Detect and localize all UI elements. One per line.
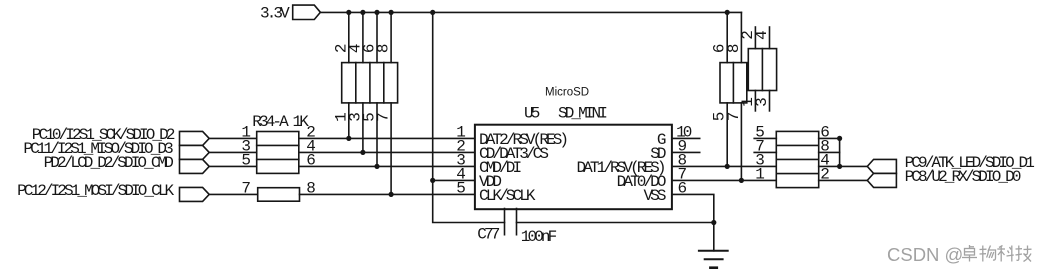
wire U5 pin7 to RP2 pin1 (672, 179, 776, 181)
wire RN2 pin5 lead (726, 103, 728, 166)
wire U5 pin6 VSS to ground (672, 194, 714, 250)
power flag 3.3V (293, 5, 321, 19)
wire RP2 pin7 stub (754, 151, 776, 153)
port flag PD2/LCD_D2/SDIO_CMD (180, 159, 210, 173)
wire tie link pins 6,8,4 (839, 138, 841, 166)
wire RP2 pin6 stub (819, 137, 840, 139)
svg-text:100nF: 100nF (521, 228, 557, 246)
wire RP2 pin2 to PC8 flag (819, 179, 868, 181)
svg-text:VSS: VSS (643, 187, 665, 205)
wire RN1 pin5 lead (376, 103, 378, 166)
wire row4 flag to R34-B (209, 193, 258, 195)
wire RP2 pin5 stub (754, 137, 776, 139)
wire RN2 pin6 lead (726, 12, 728, 62)
svg-text:3: 3 (753, 97, 771, 107)
wire RP2 pin4 to PC9 flag (819, 165, 868, 167)
watermark CSDN @卓物科技 (887, 244, 1032, 265)
svg-text:7: 7 (725, 112, 743, 122)
resistor network RN2 pull-ups (pins 6,8 top / 5,7 bottom) (720, 63, 747, 103)
svg-text:SD_MINI: SD_MINI (558, 105, 607, 123)
glyph 科 (997, 246, 1014, 262)
wire row1 flag to R34-A (209, 137, 257, 139)
ground (699, 251, 728, 268)
wire row2 R34-A to U5 pin2 (299, 151, 475, 153)
wire U5 pin10 stub (672, 137, 700, 139)
wire RN3 pin1 lead (754, 91, 756, 111)
port flag PC10/I2S1_SCK/SDIO_D2 (180, 131, 210, 145)
wire RN3 pin2 lead (754, 27, 756, 49)
wire row1 R34-A to U5 pin1 (299, 137, 475, 139)
svg-text:5: 5 (241, 151, 251, 169)
wire row3 flag to R34-A (209, 165, 257, 167)
wire RN3 pin3 lead (769, 91, 771, 111)
wire RN1 pin4 lead (362, 12, 364, 62)
svg-text:CLK/SCLK: CLK/SCLK (479, 187, 536, 205)
port flag PC8/U2_RX/SDIO_D0 (867, 173, 896, 187)
wire RN1 pin8 lead (390, 12, 392, 62)
svg-text:7: 7 (241, 179, 251, 197)
wire RN3 pin4 lead (769, 27, 771, 49)
junction dots on signal rows (346, 136, 842, 225)
svg-text:PC12/I2S1_MOSI/SDIO_CLK: PC12/I2S1_MOSI/SDIO_CLK (17, 182, 174, 200)
op-amp U5 SD_MINI body (475, 125, 672, 210)
svg-text:8: 8 (375, 43, 393, 53)
svg-text:C77: C77 (477, 226, 499, 244)
glyph 技 (1016, 246, 1032, 262)
svg-text:5: 5 (456, 179, 466, 197)
wire RN2 pin8 lead (740, 12, 742, 62)
svg-text:CSDN @: CSDN @ (887, 244, 963, 265)
resistor network RN1 pull-ups (pins 2,4,6,8 top / 1,3,5,7 bottom) (342, 63, 398, 103)
wire row2 flag to R34-A (209, 151, 257, 153)
wire U5 pin8 to RP2 pin3 (672, 165, 776, 167)
svg-text:2: 2 (820, 165, 830, 183)
wire VDD pin4 (433, 179, 475, 181)
svg-text:3.3V: 3.3V (260, 5, 290, 23)
resistor pack R34-A 1K (257, 132, 299, 174)
capacitor C77 plate right (516, 209, 518, 235)
svg-text:PD2/LCD_D2/SDIO_CMD: PD2/LCD_D2/SDIO_CMD (44, 154, 174, 172)
resistor pack RP2 series resistors (776, 131, 818, 187)
port flag PC12/I2S1_MOSI/SDIO_CLK (180, 187, 210, 201)
wire 3.3V rail (320, 11, 741, 13)
wire RN1 pin6 lead (376, 12, 378, 62)
svg-text:MicroSD: MicroSD (545, 87, 589, 99)
resistor R34 element 7-8 (258, 188, 300, 202)
resistor network RN3 (pins 2,4 top / 1,3 bottom) (748, 49, 776, 91)
wire U5 pin9 stub (672, 151, 700, 153)
svg-text:8: 8 (725, 43, 743, 53)
port flag PC9/ATK_LED/SDIO_D1 (867, 159, 896, 173)
svg-text:4: 4 (753, 30, 771, 40)
port flag PC11/I2S1_MISO/SDIO_D3 (180, 145, 210, 159)
glyph 物 (980, 246, 996, 262)
svg-text:7: 7 (375, 112, 393, 122)
svg-text:R34-A 1K: R34-A 1K (252, 113, 309, 131)
wire C77 to ground node (517, 222, 714, 224)
svg-text:PC8/U2_RX/SDIO_D0: PC8/U2_RX/SDIO_D0 (905, 168, 1021, 186)
wire RP2 pin8 stub (819, 151, 840, 153)
svg-text:1: 1 (755, 165, 765, 183)
wire RN1 pin2 lead (348, 12, 350, 62)
junction dots on 3.3V rail (346, 10, 730, 15)
capacitor C77 plate left (504, 209, 506, 235)
svg-text:U5: U5 (524, 105, 540, 123)
wire RN1 pin3 lead (362, 103, 364, 152)
glyph 卓 (962, 245, 977, 262)
wire row4 R34 to U5 pin5 (300, 193, 475, 195)
wire 3.3V branch to VDD and C77 (433, 12, 505, 222)
wire RN2 pin7 lead (740, 103, 742, 180)
wire row3 R34-A to U5 pin3 (299, 165, 475, 167)
wire RN1 pin1 lead (348, 103, 350, 138)
wire RN1 pin7 lead (390, 103, 392, 194)
